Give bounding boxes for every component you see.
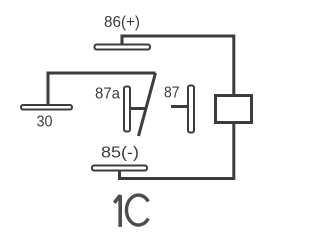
wire: coil right branch (86 stub up, across top, down through coil to bottom wire, left to 85 stub) xyxy=(120,36,234,179)
svg-text:87: 87 xyxy=(164,85,180,102)
label 1C (relay type): letter C xyxy=(126,195,148,225)
wire: 87a contact stub xyxy=(131,107,147,110)
switch arm (movable contact, resting toward 87a) xyxy=(139,73,156,136)
terminal 87 blade xyxy=(188,86,194,133)
coil U1 xyxy=(216,96,252,123)
terminal 30 blade xyxy=(21,105,72,110)
wire: 87 contact stub xyxy=(171,105,187,108)
terminal 86 blade xyxy=(95,45,151,50)
svg-text:86(+): 86(+) xyxy=(104,14,140,31)
wire: 30 to switch arm pivot xyxy=(48,73,156,105)
terminal 85 blade xyxy=(92,166,147,171)
svg-text:30: 30 xyxy=(37,114,53,131)
svg-text:87a: 87a xyxy=(95,86,120,103)
terminal 87a blade xyxy=(124,87,130,132)
svg-text:85(-): 85(-) xyxy=(101,145,139,162)
label 1C (relay type): digit 1 xyxy=(114,195,120,227)
